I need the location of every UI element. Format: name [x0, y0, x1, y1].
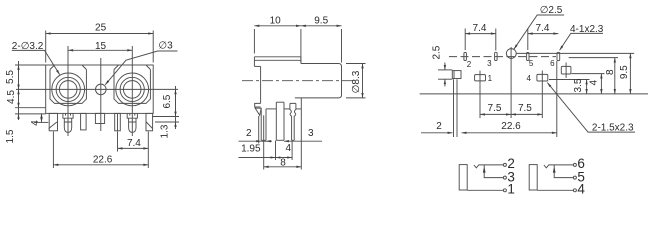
svg-text:∅8.3: ∅8.3: [351, 70, 362, 93]
svg-text:4: 4: [527, 74, 532, 83]
svg-text:4.5: 4.5: [6, 90, 17, 104]
svg-text:7.5: 7.5: [488, 103, 502, 114]
svg-text:22.6: 22.6: [501, 121, 521, 132]
svg-text:7.4: 7.4: [473, 23, 487, 34]
svg-text:25: 25: [95, 22, 107, 33]
svg-text:1.95: 1.95: [241, 144, 261, 155]
svg-text:∅3: ∅3: [158, 41, 173, 52]
svg-text:2: 2: [246, 128, 252, 139]
svg-text:1.3: 1.3: [160, 124, 171, 138]
svg-text:7.4: 7.4: [127, 138, 141, 149]
svg-text:4: 4: [30, 120, 41, 126]
svg-text:5.5: 5.5: [5, 70, 16, 84]
svg-text:2-∅3.2: 2-∅3.2: [12, 41, 44, 52]
svg-text:7.4: 7.4: [536, 23, 550, 34]
svg-text:4: 4: [577, 181, 585, 196]
svg-text:7.5: 7.5: [518, 103, 532, 114]
svg-text:10: 10: [270, 15, 282, 26]
svg-text:3.5: 3.5: [573, 78, 584, 92]
svg-text:3: 3: [308, 128, 314, 139]
svg-text:9.5: 9.5: [314, 15, 328, 26]
svg-text:3: 3: [487, 59, 492, 68]
svg-text:2: 2: [436, 121, 442, 132]
svg-text:2.5: 2.5: [432, 45, 443, 59]
svg-text:1: 1: [488, 74, 493, 83]
svg-text:2: 2: [467, 60, 472, 69]
svg-text:4: 4: [286, 143, 292, 154]
svg-text:5: 5: [529, 59, 534, 68]
svg-text:9.5: 9.5: [619, 65, 630, 79]
svg-text:∅2.5: ∅2.5: [540, 5, 563, 16]
svg-text:6: 6: [550, 59, 555, 68]
svg-text:1.5: 1.5: [5, 129, 16, 143]
svg-text:22.6: 22.6: [93, 154, 113, 165]
svg-text:8: 8: [605, 69, 616, 75]
svg-text:8: 8: [280, 157, 286, 168]
svg-text:2-1.5x2.3: 2-1.5x2.3: [592, 122, 634, 133]
svg-text:15: 15: [95, 41, 107, 52]
svg-text:4-1x2.3: 4-1x2.3: [570, 24, 604, 35]
svg-text:4: 4: [589, 79, 600, 85]
svg-text:1: 1: [507, 181, 515, 196]
svg-text:6.5: 6.5: [162, 94, 173, 108]
